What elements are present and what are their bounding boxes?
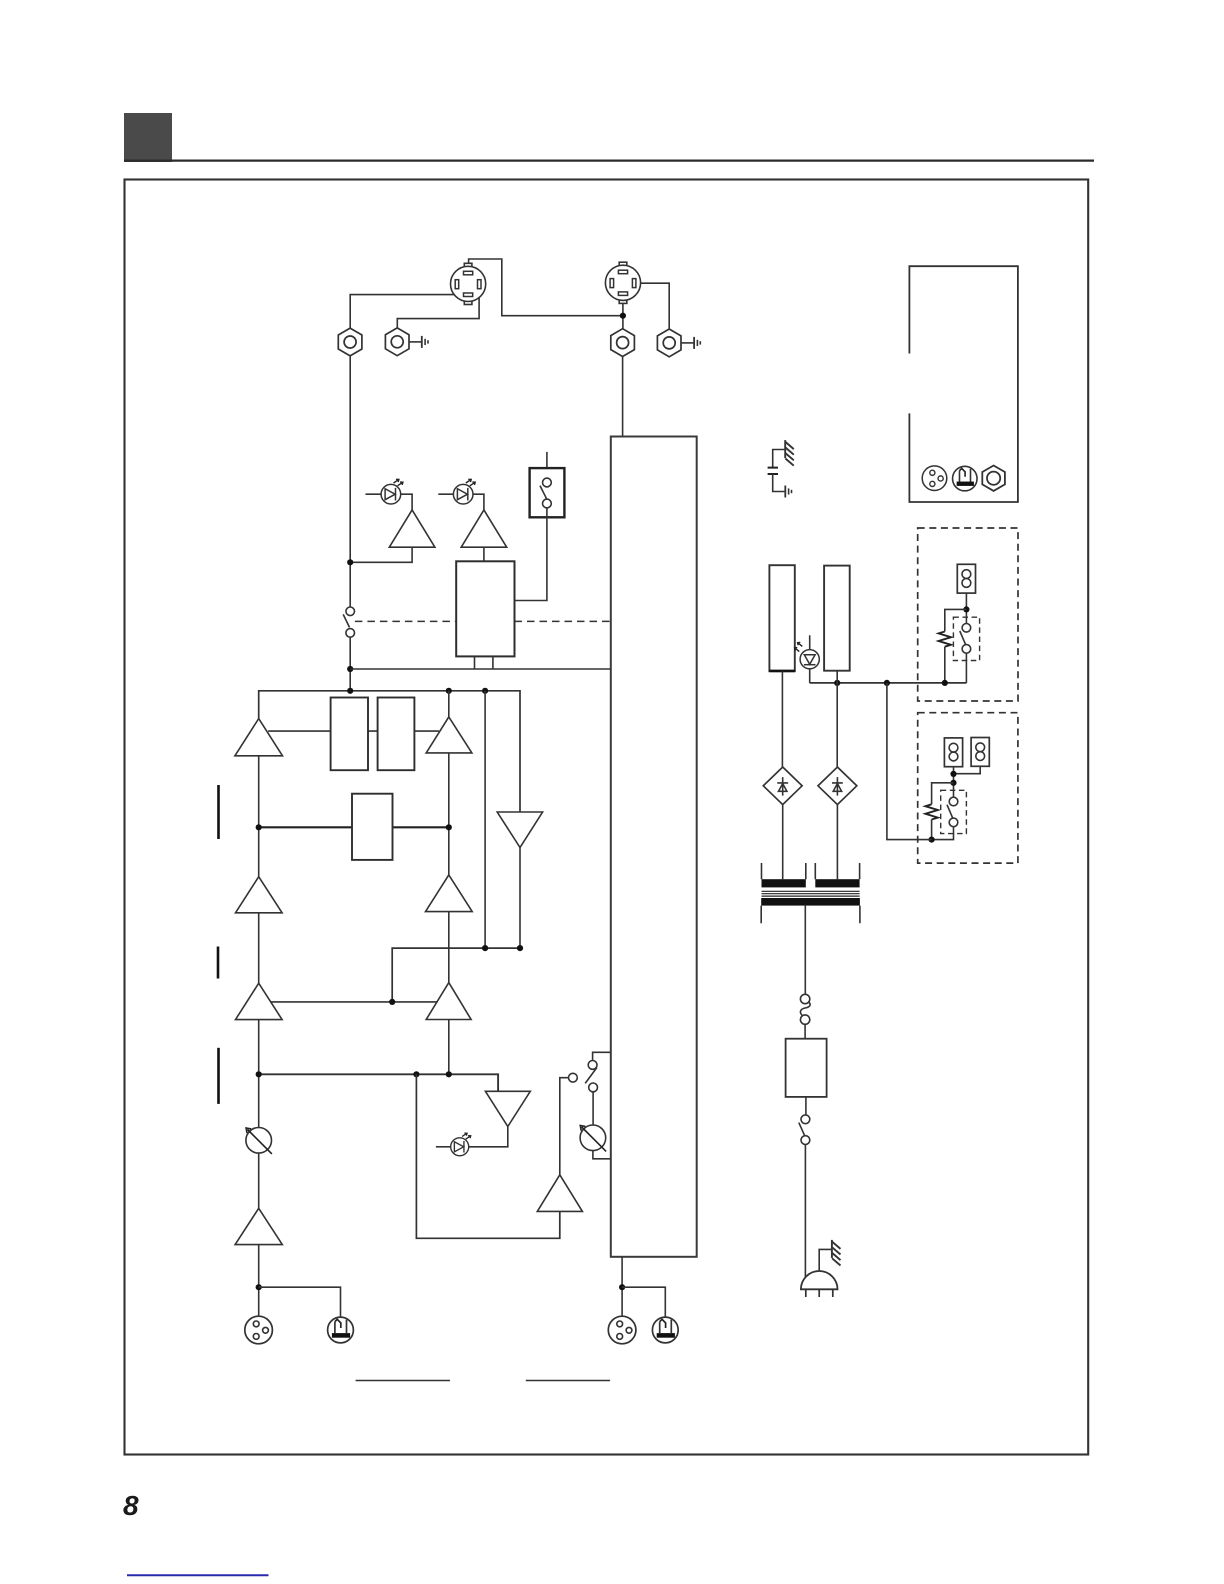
wire W2 to rectifier D2 xyxy=(836,671,838,767)
wire secondary to breaker xyxy=(804,906,806,995)
amplifier A3 xyxy=(236,983,283,1019)
mains entry block U2 xyxy=(786,1039,827,1097)
node bus/RT1 xyxy=(942,680,948,686)
mains switch S5 xyxy=(799,1115,810,1145)
amplifier A2 xyxy=(236,877,283,913)
input select switch S1 xyxy=(343,607,354,637)
node bus/B1 xyxy=(446,688,452,694)
thermal switch S6 dashed box xyxy=(941,790,967,833)
inverting amp C1 xyxy=(497,812,542,948)
footer link rule xyxy=(127,1574,269,1576)
node bus/right rail xyxy=(482,688,488,694)
node feedback/right rail xyxy=(482,945,488,951)
node row4/feedback xyxy=(389,999,395,1005)
wire from socket V2 right pin to jack J4 xyxy=(637,283,670,329)
wire A1 to A2 xyxy=(258,756,260,877)
output amp B4 xyxy=(537,1078,582,1212)
block R1 xyxy=(331,698,368,771)
wire from socket V1 bottom pin to jack J1 xyxy=(350,295,463,329)
ground lead of J4 xyxy=(681,342,694,344)
rectifier D2 xyxy=(818,767,857,805)
wire S3 upper throw to main unit xyxy=(593,1052,611,1060)
wire D2 to transformer xyxy=(836,805,838,880)
amplifier A4 xyxy=(235,1208,282,1244)
amplifier B2 xyxy=(426,875,473,912)
hex nut icon in accessories box xyxy=(982,466,1005,491)
wire A6 to power block xyxy=(483,547,485,561)
LED LD1 xyxy=(366,479,413,510)
accessories box xyxy=(909,266,1018,502)
DIN socket V1 xyxy=(451,263,486,304)
winding W1 thick base xyxy=(769,670,794,673)
DIN socket V2 xyxy=(605,262,640,303)
wire S5 to mains plug xyxy=(804,1145,806,1278)
fuse F3 xyxy=(971,738,989,767)
loop wire to output amp B4 xyxy=(416,1074,559,1238)
transformer T1 xyxy=(761,863,860,923)
signal ground at J4 xyxy=(694,337,700,349)
node mid bus right xyxy=(446,824,452,830)
margin tick bar 2 xyxy=(217,947,220,979)
node at socket V2 output xyxy=(620,313,626,319)
right rail wire xyxy=(484,691,486,948)
lower bus wire xyxy=(259,1074,498,1091)
phone jack icon in accessories box xyxy=(953,466,978,491)
volume pot P2 xyxy=(580,1125,611,1159)
main bus wire xyxy=(259,691,520,812)
wire B3 to lower bus xyxy=(448,1020,450,1075)
main unit box xyxy=(611,437,697,1257)
aux wire to main unit box xyxy=(350,668,611,670)
secondary bus wire xyxy=(810,682,967,684)
wire B1 to B2 xyxy=(448,753,450,875)
node fuse out xyxy=(950,780,956,786)
winding W2 xyxy=(824,566,850,671)
label rule left xyxy=(356,1380,450,1382)
wire B2 to B3 xyxy=(448,912,450,983)
rectifier D1 xyxy=(763,767,802,805)
jack socket J1 xyxy=(338,328,362,356)
LED LD3 xyxy=(436,1133,471,1156)
amplifier B1 xyxy=(426,691,472,753)
mechanical coupling dashed link xyxy=(355,620,611,622)
margin tick bar 3 xyxy=(217,1048,220,1104)
amplifier A5 xyxy=(389,510,435,547)
plug earth wire xyxy=(819,1249,832,1271)
wire J3 to main unit box xyxy=(622,357,624,437)
headphone switch S3 xyxy=(569,1061,598,1092)
mains plug PL1 xyxy=(801,1271,838,1297)
fuse holder dashed box 1 xyxy=(918,528,1018,701)
wire P1 to A4 xyxy=(258,1153,260,1208)
wire J1 down to input select switch S1 xyxy=(349,356,351,607)
wire A4 to XLR out xyxy=(258,1245,260,1317)
resistor RT1 branch xyxy=(939,609,967,683)
XLR connector X1 xyxy=(245,1316,273,1344)
node feedback/C1 xyxy=(517,945,523,951)
wire main unit to rear connectors xyxy=(621,1257,623,1316)
fuse holder dashed box 2 xyxy=(918,713,1018,863)
schematic frame border xyxy=(125,180,1089,1455)
thermal breaker CB1 xyxy=(800,994,810,1038)
node lower bus B xyxy=(446,1071,452,1077)
wire to headphone jack left xyxy=(259,1287,341,1317)
wire from amp A5 output to node on J1 line xyxy=(350,547,412,562)
node RT2/S6 xyxy=(929,837,935,843)
wire A2 to A3 xyxy=(258,913,260,983)
wire to headphone jack right xyxy=(622,1287,665,1317)
jack socket J2 xyxy=(385,328,409,356)
power block output stubs xyxy=(475,656,493,669)
label rule right xyxy=(526,1380,610,1382)
chassis ground upper xyxy=(785,440,794,466)
wire F3 join F2 xyxy=(954,766,981,773)
row1 coupling wires xyxy=(268,730,439,732)
node bus/winding W2 xyxy=(834,680,840,686)
volume pot P1 xyxy=(246,1128,272,1154)
wire F2 to switch S6 xyxy=(953,767,955,798)
header rule xyxy=(124,160,1094,162)
amplifier A6 xyxy=(461,510,507,547)
signal ground at J2 xyxy=(422,336,428,348)
winding W1 xyxy=(769,565,794,671)
phone jack PJ2 xyxy=(652,1317,678,1343)
node S1/aux wire xyxy=(347,666,353,672)
mid coupling bus xyxy=(259,826,449,828)
wire F1 to switch S4 xyxy=(965,593,967,623)
power supply block U1 xyxy=(456,561,514,656)
phone jack PJ1 xyxy=(328,1317,354,1343)
ground lead of J2 xyxy=(409,341,421,343)
fuse F1 xyxy=(957,564,975,593)
wire W1 to rectifier D1 xyxy=(781,671,783,767)
node bus/branch down xyxy=(884,680,890,686)
block R2 xyxy=(378,698,415,771)
wire from socket V2 bottom pin through node to jack J3 xyxy=(622,296,624,328)
wire S6 out xyxy=(932,827,954,840)
resistor RT2 branch xyxy=(925,783,953,840)
svg-text:8: 8 xyxy=(123,1490,139,1521)
fuse F2 xyxy=(944,738,962,767)
thermal switch S4 dashed box xyxy=(953,617,979,660)
wire from socket V1 right pin to jack J2 xyxy=(397,289,479,329)
wire U2 to mains switch xyxy=(805,1097,807,1115)
feedback wire upper xyxy=(392,948,520,1002)
node output split left xyxy=(256,1284,262,1290)
node bus/S1 xyxy=(347,688,353,694)
XLR connector X2 xyxy=(608,1316,636,1344)
node lower bus loop xyxy=(413,1071,419,1077)
wire S4 to secondary bus xyxy=(965,653,967,683)
wire A3 to pot P1 xyxy=(258,1020,260,1128)
block R3 xyxy=(352,794,393,860)
node output split right xyxy=(619,1284,625,1290)
node F1 out xyxy=(963,606,969,612)
node mid bus left xyxy=(256,824,262,830)
chassis ground lower xyxy=(832,1240,841,1266)
wire S3 lower throw to pot P2 xyxy=(592,1092,594,1125)
row4 coupling wire xyxy=(271,1001,438,1003)
inverting amp C2 xyxy=(469,1091,531,1147)
jack socket J4 xyxy=(657,329,681,357)
jack socket J3 xyxy=(611,329,635,357)
capacitor C1 to grounds xyxy=(768,450,786,492)
wire S1 down to bus xyxy=(349,637,351,691)
node F2/F3 xyxy=(950,771,956,777)
wire S2 to power block U1 xyxy=(515,508,547,601)
wire D1 to transformer xyxy=(782,805,784,880)
amplifier A1 xyxy=(235,719,283,756)
header block xyxy=(124,113,172,162)
XLR icon in accessories box xyxy=(922,466,947,491)
wire from socket V1 top pin to node xyxy=(469,259,623,316)
power switch box S2 xyxy=(530,468,565,517)
node on J1 line xyxy=(347,559,353,565)
signal earth below capacitor xyxy=(785,486,791,498)
pilot LED LD4 xyxy=(795,635,820,683)
margin tick bar 1 xyxy=(217,785,220,839)
node lower bus A xyxy=(256,1071,262,1077)
amplifier B3 xyxy=(426,983,471,1020)
stub above power switch box xyxy=(546,452,548,468)
LED LD2 xyxy=(438,479,484,510)
wire box2 to secondary bus xyxy=(887,683,932,840)
